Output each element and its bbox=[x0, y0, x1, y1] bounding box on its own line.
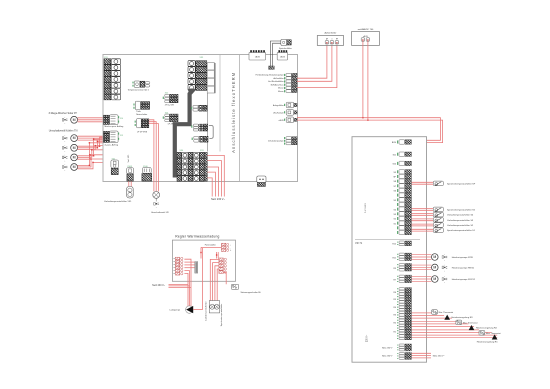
svg-text:Potenzialfrei: Potenzialfrei bbox=[205, 244, 217, 247]
svg-text:BUS: BUS bbox=[392, 142, 397, 144]
terminal S10 bbox=[392, 161, 411, 165]
wire Netz regler bbox=[169, 284, 192, 287]
terminal block system sensors bbox=[256, 73, 297, 92]
svg-text:+: + bbox=[64, 145, 65, 147]
label 5V section bbox=[365, 203, 367, 213]
svg-text:+: + bbox=[64, 170, 65, 172]
eBUS interface element bbox=[195, 262, 198, 274]
svg-text:M: M bbox=[73, 165, 76, 169]
label Umschaltventil Kuehlen bbox=[49, 130, 78, 133]
box multiMATIC bbox=[352, 28, 380, 45]
connector storage sensor internal bbox=[269, 66, 275, 69]
terminal R9 bbox=[393, 264, 411, 272]
svg-text:Netz 230 V~: Netz 230 V~ bbox=[152, 284, 165, 287]
svg-text:eBUS: eBUS bbox=[255, 57, 261, 59]
terminal block circulation pump bbox=[268, 137, 297, 145]
connector eBUS module 2 bbox=[277, 50, 287, 60]
svg-text:eBUS: eBUS bbox=[280, 57, 286, 59]
wire valve V1 to board bbox=[78, 136, 104, 140]
svg-text:M: M bbox=[73, 136, 76, 140]
svg-text:+: + bbox=[64, 117, 65, 119]
connector X106 bbox=[142, 166, 152, 181]
label VR 71 bbox=[355, 241, 363, 245]
connector X108 bbox=[127, 155, 134, 181]
wire valve V4 lattice bbox=[78, 143, 104, 169]
svg-text:+: + bbox=[444, 254, 445, 256]
terminal block charge left bbox=[173, 257, 183, 275]
pump motor R7 bbox=[412, 276, 476, 284]
relay Max-Thermostat 1 bbox=[432, 310, 454, 315]
svg-text:X14: X14 bbox=[120, 118, 123, 120]
svg-text:Umschaltventil Kühlen TN: Umschaltventil Kühlen TN bbox=[49, 130, 78, 133]
pump motor R9 bbox=[412, 264, 475, 272]
svg-text:RF: RF bbox=[336, 39, 338, 41]
svg-text:+: + bbox=[444, 276, 445, 278]
svg-text:Vorlauftemperaturfühler S2: Vorlauftemperaturfühler S2 bbox=[447, 224, 474, 227]
label Netz 230V board bbox=[211, 198, 225, 201]
wire Netz out bbox=[412, 353, 446, 358]
sensor S5 bbox=[412, 207, 476, 212]
connector C2 bbox=[163, 112, 178, 125]
vertical label Anschlussleiste flexoTHERM bbox=[231, 72, 236, 153]
terminal R11 bbox=[392, 253, 411, 260]
label Potenzialfrei bbox=[205, 244, 217, 247]
svg-text:Ladetemperaturfühler: Ladetemperaturfühler bbox=[205, 301, 208, 320]
svg-text:Speichertemperaturfühler S1: Speichertemperaturfühler S1 bbox=[447, 229, 476, 232]
svg-text:Netz 230 V~: Netz 230 V~ bbox=[382, 346, 394, 349]
svg-text:Zirkulationspumpe: Zirkulationspumpe bbox=[268, 140, 283, 143]
separator bbox=[355, 238, 420, 240]
svg-text:Temperatursensor Vpl 1: Temperatursensor Vpl 1 bbox=[128, 89, 150, 92]
motor valve V2 bbox=[62, 144, 77, 152]
svg-text:Heizkreisregelung R3: Heizkreisregelung R3 bbox=[452, 316, 474, 319]
svg-text:Max. Thermostat: Max. Thermostat bbox=[486, 332, 501, 335]
svg-text:Anlegefühler: Anlegefühler bbox=[273, 104, 284, 107]
motor valve V1 bbox=[62, 135, 77, 143]
sensor S4 bbox=[412, 212, 474, 217]
terminal Netz 1 bbox=[382, 344, 411, 351]
svg-text:+: + bbox=[64, 155, 65, 157]
connector D2 bbox=[192, 124, 208, 131]
label Netz 230V regler bbox=[152, 284, 165, 287]
cable bundle bbox=[175, 89, 196, 178]
switch Stroemungsschalter bbox=[231, 284, 261, 294]
terminal S11 bbox=[393, 152, 412, 156]
wire regler internal bbox=[184, 247, 226, 306]
connector C1 bbox=[163, 93, 178, 107]
wire valve V3 lattice bbox=[78, 139, 104, 159]
connector X31 bbox=[104, 57, 121, 100]
svg-text:+: + bbox=[64, 135, 65, 137]
svg-text:Ladepumpe: Ladepumpe bbox=[170, 309, 181, 311]
svg-text:Netz 230 V~: Netz 230 V~ bbox=[433, 355, 446, 358]
sensor S3 bbox=[412, 218, 474, 223]
wire stack down 1 bbox=[206, 93, 208, 152]
sensor S2 bbox=[412, 223, 474, 228]
connector D3 bbox=[192, 136, 208, 142]
svg-text:Vorlauftemperaturfühler S4: Vorlauftemperaturfühler S4 bbox=[447, 214, 474, 217]
connector X35 bbox=[188, 57, 207, 90]
svg-text:Speichertemperaturfühler SP: Speichertemperaturfühler SP bbox=[447, 182, 476, 185]
label Speichertemperaturfuehler bbox=[220, 303, 223, 326]
svg-text:+: + bbox=[444, 265, 445, 267]
wire relay cascade bbox=[412, 313, 498, 338]
terminal block charge right bbox=[219, 258, 227, 274]
svg-text:Speichertemperaturfühler: Speichertemperaturfühler bbox=[220, 303, 223, 326]
svg-text:Strömungsschalter BL: Strömungsschalter BL bbox=[241, 291, 262, 294]
svg-text:Regler Warmwasserladung: Regler Warmwasserladung bbox=[175, 234, 219, 238]
svg-text:+: + bbox=[64, 164, 65, 166]
divider line bbox=[239, 55, 241, 182]
wire eBUS to controls bbox=[297, 117, 443, 143]
svg-text:Anschlussleiste flexoTHERM: Anschlussleiste flexoTHERM bbox=[231, 72, 236, 153]
box Aussenfuehler bbox=[317, 32, 343, 46]
wire storage sensor bbox=[270, 41, 280, 66]
ground connector bbox=[257, 176, 266, 186]
wire mains bundle bbox=[207, 155, 224, 196]
svg-text:el-para. Aufhzg: el-para. Aufhzg bbox=[105, 143, 118, 146]
svg-text:⏚: ⏚ bbox=[230, 249, 232, 252]
terminal R11/12 bbox=[392, 241, 411, 246]
svg-text:Heizkreispumpe R9/10: Heizkreispumpe R9/10 bbox=[452, 266, 475, 269]
box VR 71 bbox=[352, 137, 427, 363]
connector temperature sensor X20 bbox=[128, 81, 150, 92]
svg-text:Speichertemperaturfühler S5: Speichertemperaturfühler S5 bbox=[447, 208, 476, 211]
svg-text:LP ZP VRS: LP ZP VRS bbox=[137, 131, 148, 133]
terminal block potential-free bbox=[221, 243, 231, 252]
svg-text:Vorlauftemperaturfühler VF1: Vorlauftemperaturfühler VF1 bbox=[104, 200, 132, 203]
inner wire vertical bbox=[219, 55, 221, 152]
svg-text:ZH 1-2 kW: ZH 1-2 kW bbox=[165, 105, 174, 107]
svg-text:Außenfühler: Außenfühler bbox=[274, 77, 284, 80]
plug group sensors bbox=[273, 102, 297, 122]
svg-text:Masse: Masse bbox=[278, 91, 283, 93]
svg-text:Max. Thermostat: Max. Thermostat bbox=[463, 322, 478, 325]
terminal R7 bbox=[393, 275, 411, 282]
terminal bank S9-S1 bbox=[393, 170, 411, 235]
box Regler Warmwasserladung bbox=[172, 234, 235, 281]
warning triangle 2 bbox=[469, 325, 498, 330]
svg-text:M: M bbox=[73, 156, 76, 160]
jumper bracket bbox=[209, 125, 213, 138]
svg-text:+: + bbox=[444, 271, 445, 273]
svg-text:+: + bbox=[64, 151, 65, 153]
sensor VF1 bbox=[104, 186, 133, 202]
svg-text:Heizkreispumpe R11/12: Heizkreispumpe R11/12 bbox=[452, 278, 476, 281]
svg-text:Netzschalter: Netzschalter bbox=[136, 113, 147, 116]
relay Max-Thermostat 2 bbox=[456, 320, 478, 325]
svg-text:Heizkreispumpe R7/8: Heizkreispumpe R7/8 bbox=[452, 256, 474, 259]
relay Max-Thermostat 3 bbox=[479, 331, 501, 336]
svg-text:M: M bbox=[73, 146, 76, 150]
warning triangle 3 bbox=[477, 334, 499, 343]
motor valve V3 bbox=[62, 154, 77, 163]
svg-text:230 V~: 230 V~ bbox=[367, 334, 369, 342]
sensor SP storage bbox=[412, 181, 476, 186]
terminal BUS bbox=[392, 140, 412, 144]
sensor box charge sensors bbox=[209, 301, 219, 313]
wire pump feed to UV bbox=[149, 120, 159, 192]
svg-text:+: + bbox=[64, 123, 65, 125]
svg-text:Vorlauftemperaturfühler S3: Vorlauftemperaturfühler S3 bbox=[447, 219, 474, 222]
connector X41 bbox=[111, 158, 119, 174]
svg-text:+: + bbox=[64, 161, 65, 163]
svg-text:+: + bbox=[64, 141, 65, 143]
pump Ladepumpe bbox=[170, 248, 203, 313]
svg-text:Mischer para. Aufhzg: Mischer para. Aufhzg bbox=[105, 125, 124, 128]
svg-text:M: M bbox=[433, 277, 436, 281]
svg-text:M: M bbox=[73, 118, 76, 122]
svg-text:Heizkreisregelung R1: Heizkreisregelung R1 bbox=[477, 340, 499, 343]
wire multiMATIC down bbox=[363, 41, 368, 120]
svg-text:Speicherfühler: Speicherfühler bbox=[279, 48, 292, 50]
plug Speicherfuehler bbox=[279, 39, 292, 50]
connector pump feed bbox=[135, 119, 149, 134]
motor M-mixer (3-way mixer solar) bbox=[62, 116, 77, 125]
connector mixer output bbox=[104, 115, 124, 128]
svg-text:Netz 230 V~: Netz 230 V~ bbox=[211, 198, 225, 201]
terminal Netz 2 bbox=[382, 353, 411, 360]
warning triangle 1 bbox=[444, 315, 473, 320]
connector valve outputs bbox=[104, 131, 123, 146]
connector X30 mains block bbox=[177, 150, 207, 181]
plug UV bbox=[151, 201, 169, 214]
label Ladetemperaturfuehler bbox=[205, 301, 208, 320]
wire AF sensors bbox=[297, 45, 337, 87]
connector transformer bbox=[134, 101, 150, 116]
svg-text:Max. Thermostat: Max. Thermostat bbox=[439, 311, 454, 314]
valve UV bbox=[153, 192, 160, 201]
terminal bank R6-R1 bbox=[393, 288, 411, 340]
svg-text:+: + bbox=[444, 282, 445, 284]
svg-text:+: + bbox=[444, 260, 445, 262]
motor valve V4 bbox=[62, 164, 77, 173]
wire mixer to board bbox=[78, 118, 104, 122]
label 230V section bbox=[367, 334, 369, 342]
svg-text:Heizkreisregelung R2: Heizkreisregelung R2 bbox=[476, 326, 498, 329]
label 3-Wege-Mischer Solar bbox=[49, 112, 78, 115]
svg-text:Uhr-/Kontakt: Uhr-/Kontakt bbox=[273, 112, 284, 115]
svg-text:Außenfühler: Außenfühler bbox=[324, 32, 336, 35]
connector stack bbox=[207, 63, 215, 94]
wire VF1 bbox=[129, 181, 131, 186]
junction dots bbox=[89, 139, 101, 167]
svg-text:+: + bbox=[230, 244, 231, 246]
svg-text:+: + bbox=[156, 201, 157, 203]
svg-text:BUS-Anschluss: BUS-Anschluss bbox=[271, 83, 284, 86]
svg-text:multiMATIC 700: multiMATIC 700 bbox=[358, 28, 374, 31]
sensor S1 bbox=[412, 228, 476, 233]
svg-text:+: + bbox=[156, 207, 157, 209]
svg-text:Masse: Masse bbox=[278, 88, 283, 90]
connector eBUS module 1 bbox=[249, 50, 266, 60]
svg-text:3-Wege-Mischer Solar 9?: 3-Wege-Mischer Solar 9? bbox=[49, 112, 78, 115]
connector D1 bbox=[192, 105, 208, 111]
pump motor R11 bbox=[412, 254, 474, 262]
svg-text:M: M bbox=[433, 266, 436, 270]
main board Anschlussleiste flexoTHERM bbox=[103, 55, 298, 182]
svg-text:VR 71: VR 71 bbox=[355, 241, 363, 245]
svg-text:Vor-/Rücklauffühler: Vor-/Rücklauffühler bbox=[268, 80, 284, 83]
wire valve V2 lattice bbox=[78, 137, 104, 149]
svg-text:Fernbedienung Zirkulationspump: Fernbedienung Zirkulationspumpe bbox=[256, 74, 284, 77]
svg-text:eBUS: eBUS bbox=[279, 120, 285, 122]
svg-text:Vorl. VF1: Vorl. VF1 bbox=[127, 155, 130, 163]
svg-text:5 V / 24 V: 5 V / 24 V bbox=[365, 203, 367, 213]
svg-text:Umschaltventil UV: Umschaltventil UV bbox=[151, 211, 169, 214]
svg-text:Netz 230 V~: Netz 230 V~ bbox=[382, 354, 394, 357]
svg-text:X13: X13 bbox=[120, 135, 123, 137]
svg-text:M: M bbox=[433, 255, 436, 259]
